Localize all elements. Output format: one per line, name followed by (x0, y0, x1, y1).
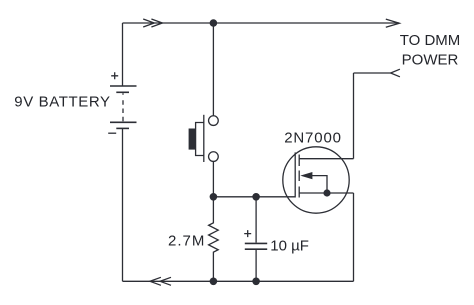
transistor Q1: source internal lead (299, 192, 353, 194)
transistor Q1: source-substrate junction dot (323, 189, 330, 196)
transistor Q1: channel dash (source) (298, 187, 300, 198)
transistor Q1: gate electrode (294, 152, 296, 197)
wire drain vertical up to DMM return (353, 73, 355, 159)
transistor Q1: substrate arrowhead (pointing left) (300, 172, 312, 179)
svg-text:9V BATTERY: 9V BATTERY (14, 94, 110, 111)
junction node: switch / resistor / gate wire (210, 193, 218, 201)
transistor Q1: drain internal lead (299, 158, 353, 160)
transistor Q1: channel dash (body) (298, 171, 300, 182)
svg-text:TO DMM: TO DMM (400, 32, 461, 49)
battery B1: dashed internal cells line (122, 93, 124, 121)
wire capacitor bottom lead (255, 250, 257, 281)
double chevron current-direction marker on bottom rail (pointing left) (150, 277, 171, 285)
battery B1: plus polarity mark (111, 72, 118, 79)
battery B1 9V: + long plate (cell 1) (110, 85, 137, 87)
capacitor C1: bottom plate (245, 248, 267, 250)
double chevron current-direction marker on top rail (143, 19, 162, 27)
svg-text:2.7M: 2.7M (168, 232, 205, 249)
wire from top junction down to pushbutton top terminal (212, 23, 214, 116)
wire capacitor top lead (255, 197, 257, 243)
transistor Q1 2N7000: body circle (283, 147, 349, 213)
junction node: capacitor top (252, 193, 260, 201)
battery B1: short plate (cell 1) (116, 91, 129, 93)
battery B1: long plate (cell 2) (110, 121, 137, 123)
wire left vertical from battery - down to bottom rail (122, 128, 124, 281)
pushbutton S1: top terminal circle (209, 116, 219, 126)
wire source vertical down to bottom rail (353, 193, 355, 281)
wire from pushbutton bottom terminal to gate node (212, 161, 214, 197)
transistor Q1: channel dash (drain) (298, 155, 300, 167)
svg-text:2N7000: 2N7000 (284, 130, 342, 147)
junction node: top rail to switch (210, 19, 218, 27)
junction node: capacitor bottom on rail (252, 278, 260, 286)
wire bottom rail (123, 280, 354, 282)
svg-text:POWER: POWER (402, 52, 459, 69)
wire DMM return horizontal (354, 72, 391, 74)
wire gate horizontal to MOSFET gate (213, 196, 295, 198)
capacitor C1: plus polarity mark (244, 230, 251, 237)
pushbutton S1: button cap (189, 129, 195, 150)
svg-text:10 µF: 10 µF (270, 237, 309, 254)
battery B1: minus polarity mark (108, 132, 116, 134)
arrowhead (open, pointing right) at end of top rail (386, 19, 400, 27)
resistor R1 2.7M (zigzag) (209, 197, 219, 281)
pushbutton S1: actuator bracket (196, 123, 204, 156)
capacitor C1: top plate (245, 242, 267, 244)
junction node: resistor bottom on rail (210, 278, 218, 286)
transistor Q1: substrate arrow line (303, 176, 327, 193)
pushbutton S1: bottom terminal circle (209, 152, 219, 162)
pushbutton S1: movable contact bar (203, 115, 205, 162)
wire left vertical from top rail to battery + plate (122, 23, 124, 86)
arrowhead (open, pointing left) at DMM return (391, 69, 400, 77)
wire top rail from battery + to DMM arrow (123, 22, 400, 24)
battery B1: short plate (cell 2) (116, 127, 129, 129)
